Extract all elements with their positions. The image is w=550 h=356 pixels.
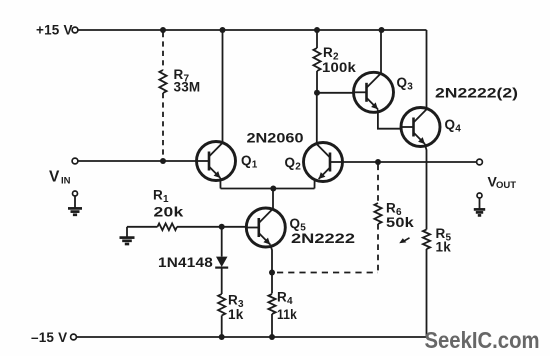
wire Q4 emitter down [425, 144, 427, 230]
label R6 adjust arrow [399, 238, 409, 244]
wire VOUT ground stub [479, 198, 481, 209]
svg-text:OUT: OUT [496, 180, 516, 191]
label R1 20k [153, 188, 184, 220]
node junction output / R6 [375, 159, 381, 165]
label Q2 [285, 155, 302, 173]
wire dashed R7 lower [162, 93, 164, 159]
node VIN ground terminal [73, 191, 78, 196]
wire R4 bottom lead [271, 314, 273, 337]
label 1N4148 [158, 255, 213, 270]
node VOUT ground terminal [477, 193, 482, 198]
wire Q5 collector [272, 189, 274, 209]
svg-text:2N2222: 2N2222 [291, 230, 355, 246]
label 2N2060 [247, 130, 304, 146]
node junction R4 / bottom rail [269, 334, 275, 340]
wire diode cathode lead [221, 268, 223, 294]
resistor R7 [159, 70, 166, 93]
svg-text:R4: R4 [277, 290, 293, 308]
wire dashed R6 feedback [277, 272, 378, 274]
svg-text:50k: 50k [386, 215, 414, 230]
wire Q3 emitter to Q4 base [378, 110, 401, 129]
resistor R5 [423, 230, 430, 250]
node VIN terminal [72, 158, 78, 164]
label R7 33M [174, 67, 201, 95]
wire -15V bottom rail [77, 336, 427, 338]
svg-text:SeekIC.com: SeekIC.com [425, 327, 540, 353]
wire Q1-Q2 emitter common [221, 188, 315, 190]
svg-text:2N2222(2): 2N2222(2) [435, 85, 518, 101]
wire VIN input line [78, 160, 197, 162]
wire R5 bottom lead [426, 249, 428, 337]
node junction top rail / Q3 collector [379, 27, 385, 33]
svg-text:1k: 1k [228, 307, 244, 322]
label SeekIC.com watermark [425, 327, 540, 353]
label R2 100k [322, 45, 356, 75]
svg-text:20k: 20k [154, 205, 184, 220]
wire R2 bottom lead [316, 71, 318, 93]
svg-text:Q3: Q3 [397, 75, 414, 93]
resistor R6 [374, 203, 381, 224]
wire R3 bottom lead [221, 316, 223, 338]
node junction top rail / Q1 collector [220, 27, 226, 33]
resistor R4 [268, 294, 275, 314]
svg-text:V: V [49, 169, 60, 186]
wire Q2 emitter down [314, 179, 316, 189]
wire VIN ground stub [74, 196, 76, 208]
label Q1 [241, 153, 258, 171]
wire Q1 collector [222, 30, 224, 143]
wire R1 left lead [127, 226, 158, 228]
wire Q2 collector [316, 93, 318, 144]
resistor R3 [218, 294, 225, 316]
resistor R2 [313, 48, 320, 71]
wire R2 to Q3 base [317, 92, 354, 94]
wire dashed R6 upper [377, 165, 379, 204]
svg-text:–15 V: –15 V [31, 330, 67, 345]
svg-text:100k: 100k [322, 60, 356, 75]
transistor Q4 [401, 108, 440, 147]
node junction VIN / R7 [160, 158, 166, 164]
svg-text:11k: 11k [277, 307, 297, 322]
wire R2 top lead [316, 30, 318, 48]
label VOUT [488, 174, 517, 192]
node junction R2 / Q3 base [314, 90, 320, 96]
label R4 11k [277, 290, 297, 323]
ground at VOUT [474, 209, 485, 215]
wire diode anode lead [221, 227, 223, 257]
svg-text:1k: 1k [436, 240, 452, 255]
wire R1 ground stub [126, 227, 128, 237]
svg-text:Q1: Q1 [241, 153, 258, 171]
ground at R1 [120, 238, 135, 244]
node +15V terminal [72, 27, 78, 33]
node junction R3 / bottom rail [219, 334, 225, 340]
svg-text:R1: R1 [153, 188, 169, 206]
wire Q3 collector [380, 30, 382, 73]
transistor Q1 [197, 142, 236, 181]
svg-text:+15 V: +15 V [36, 23, 73, 38]
label 2N2222(2) [435, 85, 518, 101]
svg-text:33M: 33M [174, 80, 201, 95]
label Q3 [397, 75, 414, 93]
label R3 1k [228, 293, 244, 323]
label +15V [36, 23, 73, 38]
node VOUT terminal [477, 159, 483, 165]
resistor R1 [158, 223, 178, 230]
node -15V terminal [71, 334, 77, 340]
wire +15V top rail [78, 30, 427, 108]
node junction top rail / R2 [314, 27, 320, 33]
wire R1 right lead to Q5 base [177, 226, 246, 228]
label VIN [49, 169, 71, 187]
wire dashed R6 lower [377, 224, 379, 273]
transistor Q2 [304, 143, 343, 182]
label -15V [31, 330, 67, 345]
node junction R1 / diode [219, 224, 225, 230]
wire Q1 emitter down [219, 178, 221, 189]
svg-text:Q2: Q2 [285, 155, 302, 173]
node junction emitters / Q5 collector [270, 186, 276, 192]
svg-text:Q4: Q4 [445, 117, 462, 135]
svg-text:IN: IN [61, 176, 71, 187]
label Q4 [445, 117, 462, 135]
transistor Q3 [354, 72, 394, 112]
wire Q5 emitter down [270, 245, 272, 294]
svg-text:1N4148: 1N4148 [158, 255, 213, 270]
label R6 50k [386, 201, 414, 231]
ground at VIN [68, 208, 82, 214]
diode D1 1N4148 [215, 257, 228, 268]
svg-text:2N2060: 2N2060 [247, 130, 304, 146]
wire dashed R7 upper [162, 32, 164, 70]
transistor Q5 [246, 208, 285, 247]
node junction top rail / R7 [160, 27, 166, 33]
label Q5 2N2222 [290, 216, 356, 246]
label R5 1k [436, 226, 452, 255]
wire Q2 base to VOUT [343, 161, 477, 163]
node junction Q5 emitter / feedback [269, 270, 275, 276]
